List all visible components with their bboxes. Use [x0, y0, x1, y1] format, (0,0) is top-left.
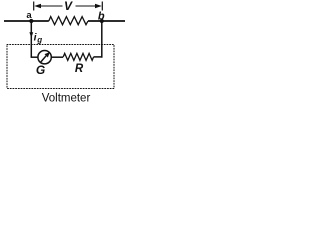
node b — [100, 19, 104, 23]
resistor (series element between a and b) — [49, 17, 88, 25]
svg-text:Voltmeter: Voltmeter — [42, 92, 91, 104]
svg-text:b: b — [98, 11, 105, 23]
svg-text:V: V — [64, 0, 73, 13]
resistor R — [63, 53, 93, 60]
svg-text:G: G — [36, 63, 45, 77]
wire: galvanometer to resistor R — [52, 56, 64, 58]
voltmeter dotted box — [7, 45, 114, 89]
svg-text:a: a — [26, 10, 32, 21]
wire: vertical from node a down into box — [30, 21, 32, 57]
wire: top main wire left segment — [4, 20, 49, 22]
svg-text:R: R — [75, 63, 84, 75]
svg-text:g: g — [36, 36, 42, 45]
dimension line V: left tick — [33, 2, 35, 11]
galvanometer G — [38, 51, 51, 64]
wire: elbow from a-wire to galvanometer — [31, 56, 38, 58]
dimension line V: right tick — [101, 2, 103, 11]
dimension line V: right arrow segment — [76, 4, 102, 9]
current arrow Ig — [29, 32, 33, 38]
wire: top main wire right segment — [88, 20, 125, 22]
dimension line V: left arrow segment — [34, 4, 62, 9]
node a — [29, 19, 33, 23]
wire: resistor R to b-wire elbow — [94, 56, 103, 58]
wire: vertical from node b down into box — [101, 21, 103, 58]
